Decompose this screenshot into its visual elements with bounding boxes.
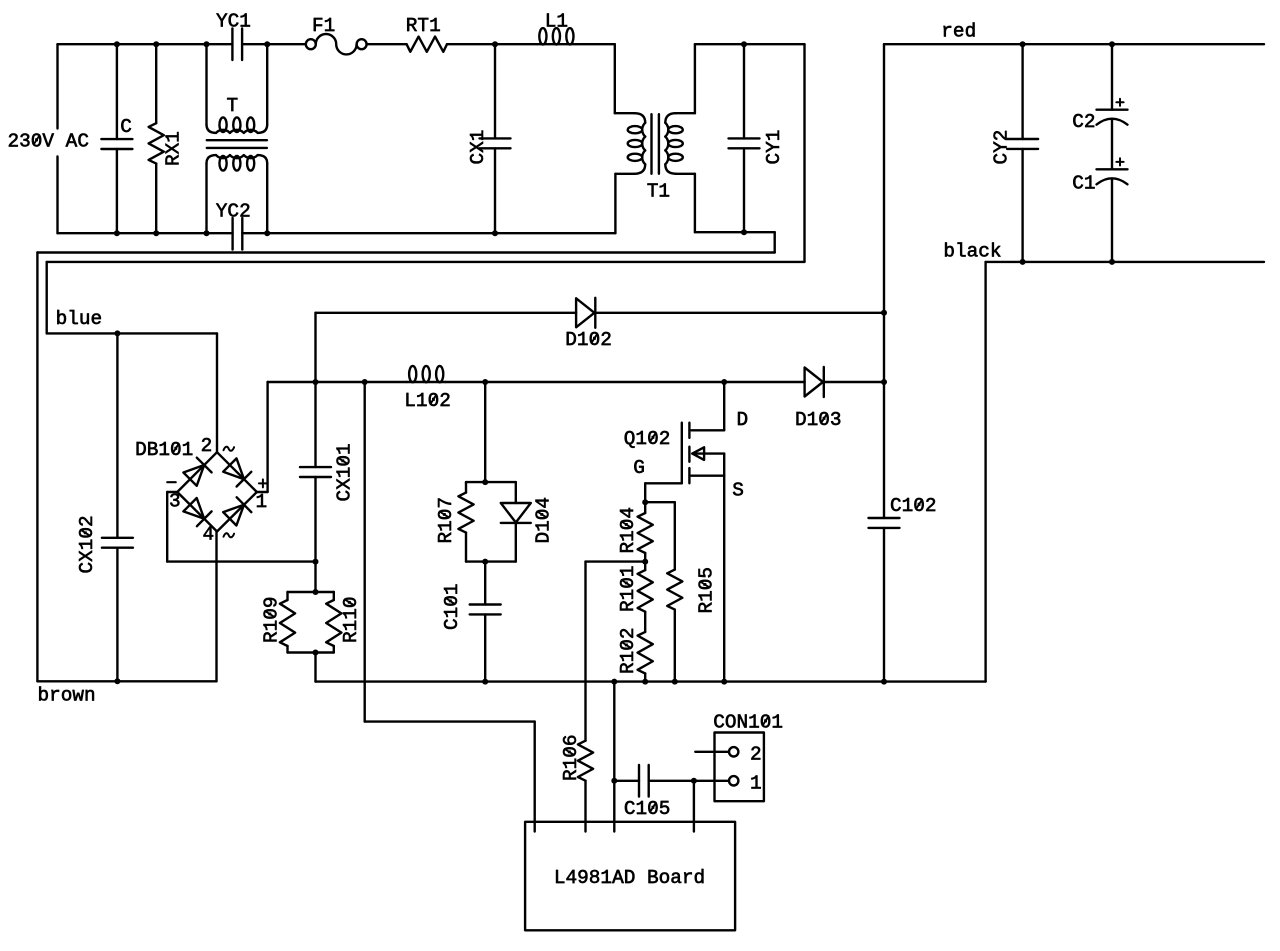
- svg-text:L102: L102: [404, 390, 451, 412]
- svg-text:brown: brown: [38, 684, 96, 706]
- svg-text:CX101: CX101: [334, 443, 356, 501]
- svg-text:red: red: [941, 20, 976, 42]
- svg-text:R105: R105: [695, 567, 717, 614]
- svg-text:Q102: Q102: [624, 428, 671, 450]
- svg-text:T1: T1: [647, 181, 670, 203]
- svg-text:CY2: CY2: [991, 130, 1013, 165]
- svg-text:CX102: CX102: [76, 515, 98, 573]
- svg-text:YC1: YC1: [216, 10, 251, 32]
- svg-text:D102: D102: [565, 329, 612, 351]
- svg-text:R107: R107: [435, 497, 457, 544]
- svg-text:RT1: RT1: [406, 15, 441, 37]
- svg-text:D: D: [737, 409, 749, 431]
- svg-text:C2: C2: [1072, 111, 1095, 133]
- svg-text:RX1: RX1: [163, 131, 185, 166]
- svg-text:R109: R109: [260, 596, 282, 643]
- svg-text:D104: D104: [533, 497, 555, 544]
- svg-text:C1: C1: [1072, 173, 1095, 195]
- svg-text:4: 4: [203, 524, 215, 546]
- svg-text:F1: F1: [312, 15, 335, 37]
- svg-text:2: 2: [201, 435, 213, 457]
- svg-text:R101: R101: [617, 565, 639, 612]
- svg-text:1: 1: [256, 491, 268, 513]
- svg-text:CX1: CX1: [467, 130, 489, 165]
- svg-text:230V AC: 230V AC: [8, 131, 89, 153]
- svg-text:CY1: CY1: [763, 130, 785, 165]
- svg-text:C101: C101: [441, 583, 463, 630]
- svg-text:DB101: DB101: [135, 439, 193, 461]
- svg-text:CON101: CON101: [713, 712, 783, 734]
- svg-text:black: black: [943, 241, 1001, 263]
- svg-text:R102: R102: [617, 627, 639, 674]
- svg-text:L4981AD Board: L4981AD Board: [554, 867, 705, 889]
- svg-text:C102: C102: [890, 495, 937, 517]
- svg-text:G: G: [633, 457, 645, 479]
- svg-text:YC2: YC2: [216, 200, 251, 222]
- svg-text:C105: C105: [624, 798, 671, 820]
- svg-text:D103: D103: [795, 409, 842, 431]
- svg-text:T: T: [227, 95, 239, 117]
- svg-text:1: 1: [750, 772, 762, 794]
- svg-text:R104: R104: [617, 507, 639, 554]
- svg-text:blue: blue: [56, 308, 103, 330]
- svg-text:3: 3: [169, 491, 181, 513]
- svg-text:2: 2: [750, 743, 762, 765]
- svg-text:L1: L1: [545, 10, 568, 32]
- svg-text:S: S: [732, 479, 744, 501]
- svg-text:C: C: [120, 116, 132, 138]
- svg-text:R106: R106: [560, 734, 582, 781]
